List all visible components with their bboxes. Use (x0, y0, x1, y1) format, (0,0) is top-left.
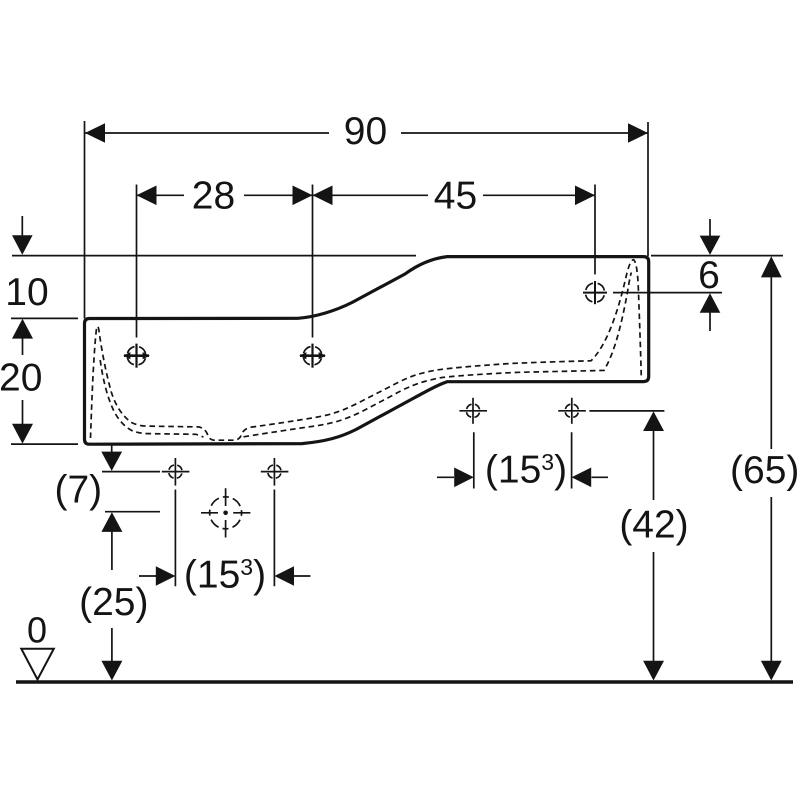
svg-text:28: 28 (192, 174, 235, 217)
small hole (274.4,471.6) (261, 458, 289, 486)
dim (65) down arrow (761, 661, 782, 681)
small hole (473,410.8) (459, 398, 487, 424)
dim 6 up arrow (700, 293, 721, 313)
right reference line y=255.6 (651, 255, 783, 257)
tick y=511.7 (105, 511, 160, 513)
reference line y=255.6 left (12, 255, 416, 257)
dim (7) down arrow (101, 452, 122, 471)
small hole (175.4,471.6) (162, 458, 190, 486)
fixing hole symbol right (595,292.6) (583, 281, 607, 304)
ground line (16, 680, 793, 684)
arrowheads (12, 123, 782, 680)
extension x=595 (594, 185, 596, 275)
left (15^3) extension lines (175, 490, 274, 587)
left (15^3) arrows (156, 566, 176, 586)
tick y=471.6 (102, 471, 160, 473)
extension line right x=648 (647, 122, 649, 256)
dim 90 arrows (85, 123, 105, 143)
dim 45 arrows (313, 186, 333, 206)
datum triangle (21, 649, 54, 680)
svg-text:(65): (65) (730, 449, 799, 492)
dim (42) up arrow (643, 411, 664, 431)
svg-text:(25): (25) (79, 581, 148, 624)
tick y=318.4 (11, 317, 78, 319)
dim 6 down arrow (700, 236, 721, 255)
dim (42) tails (653, 431, 655, 662)
svg-text:(153): (153) (184, 554, 266, 597)
dim (65) up arrow (761, 256, 782, 277)
dim (42) down arrow (643, 661, 664, 681)
svg-text:0: 0 (27, 610, 47, 651)
dim 20 tails (22, 338, 24, 425)
svg-text:(42): (42) (619, 504, 688, 547)
dim 6 arrow tails (709, 219, 711, 331)
right (15^3) extension lines (474, 432, 572, 488)
dim (25) down arrow (101, 661, 122, 681)
fixing hole symbol middle top face (312.5,355.7) (300, 344, 325, 368)
reference line y=410.9 (589, 410, 664, 412)
dim (25) tails (111, 532, 113, 662)
fixing hole symbol left top face (136.5,355.7) (124, 344, 149, 368)
dim (25) up arrow (101, 512, 122, 532)
svg-text:6: 6 (698, 254, 720, 297)
svg-text:90: 90 (344, 110, 387, 153)
right (15^3) arrow tails (437, 476, 608, 478)
svg-text:(7): (7) (54, 469, 102, 512)
svg-text:45: 45 (434, 174, 477, 217)
dashed inner bowl profile (inner dashed line) (100, 360, 203, 437)
tick y=444.1 (11, 443, 78, 445)
hole center reference line y=292.6 (613, 292, 722, 294)
dim (7): tail from body bottom (111, 444, 113, 452)
left (15^3) arrow tails (139, 575, 311, 577)
dim 10 arrow tail (21, 216, 23, 236)
right (15^3) arrows (454, 468, 474, 488)
svg-text:20: 20 (0, 357, 42, 400)
svg-text:(153): (153) (485, 449, 567, 492)
dim 20 down arrow (12, 424, 33, 444)
svg-text:10: 10 (5, 271, 48, 314)
dimension 90: line y=133 from x=85 to x=648 (85, 132, 648, 134)
washbasin body outline (85, 257, 649, 445)
extension line left x=84.5 (84, 121, 86, 319)
dimension 28/45: line y=195.3 (137, 194, 596, 196)
drain symbol (225.6,512.8) (201, 488, 250, 537)
dim 28 arrows (137, 186, 157, 206)
extension x=312.5 (312, 185, 314, 338)
dim 10 down arrow (12, 235, 33, 255)
extension x=136.5 (136, 185, 138, 338)
dashed inner bowl profile (outer dashed line, left spike) (91, 260, 642, 441)
dim 20 up arrow (12, 319, 33, 339)
small hole (571.8,410.8) (558, 398, 586, 424)
dim (65) tails (770, 277, 772, 661)
